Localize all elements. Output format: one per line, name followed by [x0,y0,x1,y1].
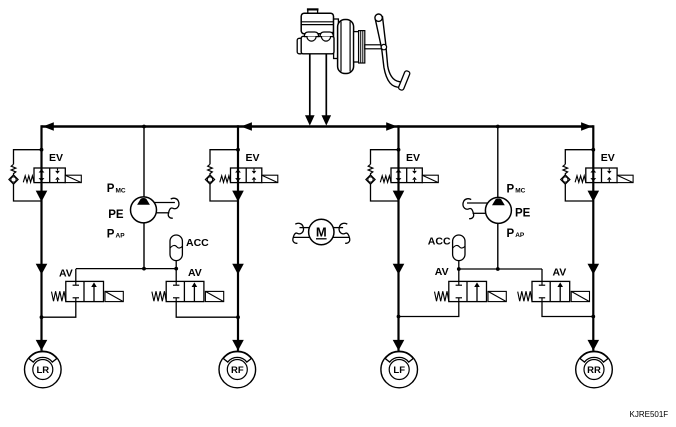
svg-text:LR: LR [36,365,49,376]
svg-text:RR: RR [587,365,601,376]
svg-text:PE: PE [108,209,124,221]
svg-text:ACC: ACC [428,236,451,248]
svg-text:LF: LF [393,365,405,376]
svg-text:AV: AV [553,266,567,278]
svg-text:P: P [107,183,115,195]
svg-text:P: P [507,228,515,240]
svg-text:KJRE501F: KJRE501F [630,410,669,419]
svg-text:MC: MC [515,188,525,195]
svg-text:AV: AV [59,267,73,279]
svg-text:ACC: ACC [186,237,209,249]
svg-text:RF: RF [231,365,244,376]
svg-text:MC: MC [116,187,126,194]
svg-text:AP: AP [515,232,525,239]
svg-text:P: P [507,184,515,196]
svg-text:P: P [107,229,115,241]
svg-text:M: M [316,225,327,240]
svg-text:AV: AV [188,267,202,279]
svg-text:AP: AP [116,233,126,240]
svg-text:PE: PE [515,208,531,220]
svg-text:AV: AV [435,266,449,278]
